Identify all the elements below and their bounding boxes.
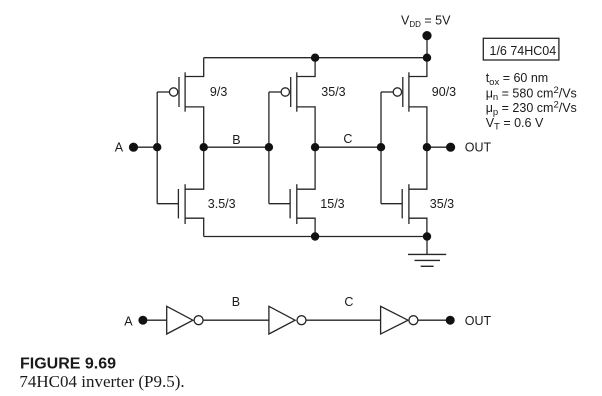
transistor M1 PMOS 9/3: [157, 58, 204, 148]
ground: [408, 254, 446, 266]
svg-text:B: B: [232, 295, 240, 309]
wire ground drop: [426, 237, 428, 255]
svg-text:FIGURE 9.69: FIGURE 9.69: [20, 356, 116, 373]
node OUT terminal dot: [446, 143, 455, 152]
svg-text:3.5/3: 3.5/3: [208, 197, 236, 211]
svg-text:B: B: [232, 133, 240, 147]
svg-text:15/3: 15/3: [320, 197, 344, 211]
logic wires row: [143, 319, 450, 321]
junction stage2 output: [311, 143, 319, 151]
junction stage3 output: [423, 143, 431, 151]
node A terminal dot: [129, 143, 138, 152]
svg-text:tox = 60 nm: tox = 60 nm: [486, 71, 549, 88]
junction VDD rail: [423, 54, 431, 62]
junction stage1 output: [200, 143, 208, 151]
label 1/6 74HC04 box: [483, 38, 559, 60]
wire bottom ground rail: [204, 236, 427, 238]
svg-text:A: A: [115, 141, 124, 155]
node VDD terminal dot: [422, 31, 431, 40]
svg-text:C: C: [344, 295, 353, 309]
transistor M2 NMOS 3.5/3: [157, 147, 204, 236]
svg-text:1/6 74HC04: 1/6 74HC04: [490, 44, 557, 58]
svg-text:35/3: 35/3: [321, 85, 345, 99]
svg-text:VT = 0.6 V: VT = 0.6 V: [486, 116, 544, 133]
inverter gate G3: [381, 306, 418, 334]
transistor M3 PMOS 35/3: [269, 58, 315, 148]
logic OUT terminal dot: [446, 316, 455, 325]
wire A to stage1 gate: [134, 146, 158, 148]
svg-text:74HC04 inverter (P9.5).: 74HC04 inverter (P9.5).: [19, 372, 184, 391]
inverter gate G1: [167, 306, 203, 334]
wire node C segment: [315, 146, 381, 148]
svg-text:VDD = 5V: VDD = 5V: [401, 13, 451, 28]
wire top VDD rail: [204, 57, 427, 59]
svg-text:C: C: [343, 132, 352, 146]
wire stage3 output to OUT: [427, 146, 451, 148]
junction stage3 gate: [377, 143, 385, 151]
transistor M5 PMOS 90/3: [381, 58, 427, 148]
svg-text:35/3: 35/3: [430, 197, 454, 211]
junction stage1 gate: [153, 143, 161, 151]
wire node B segment: [204, 146, 269, 148]
svg-text:OUT: OUT: [465, 141, 492, 155]
wire VDD drop: [426, 36, 428, 58]
junction ground rail stage3: [423, 232, 431, 240]
inverter gate G2: [269, 306, 306, 334]
svg-text:90/3: 90/3: [432, 85, 456, 99]
transistor M6 NMOS 35/3: [381, 147, 427, 236]
svg-text:A: A: [124, 314, 133, 328]
svg-text:9/3: 9/3: [210, 85, 227, 99]
transistor M4 NMOS 15/3: [269, 147, 315, 236]
logic A terminal dot: [138, 316, 147, 325]
svg-text:OUT: OUT: [465, 314, 492, 328]
junction stage2 gate: [265, 143, 273, 151]
junction rail stage2 PMOS: [311, 54, 319, 62]
junction ground rail stage2: [311, 232, 319, 240]
